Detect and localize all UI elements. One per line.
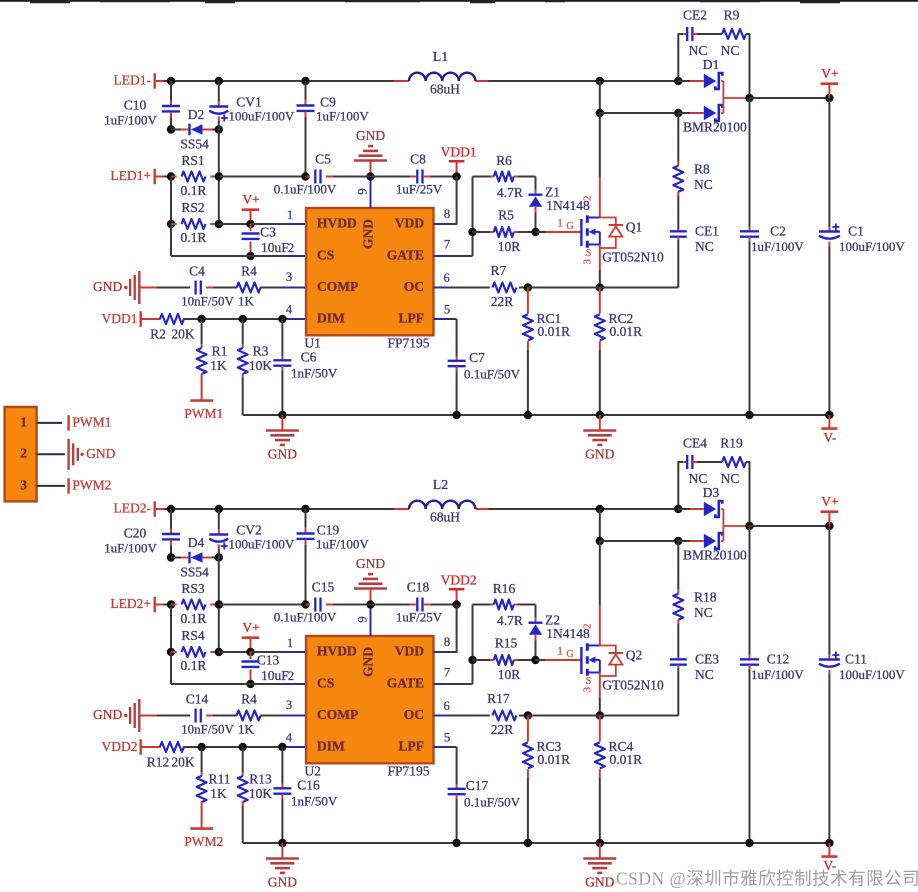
port LED2+ (153, 597, 155, 613)
port PWM1 at connector (67, 415, 69, 431)
wire OC row to CE1 column (524, 711, 532, 719)
capacitor C18 1uF/25V (371, 604, 410, 606)
wire CV column down to RS rows (218, 130, 220, 225)
svg-text:R17: R17 (487, 691, 510, 706)
svg-text:R3: R3 (253, 344, 269, 359)
svg-text:PWM1: PWM1 (72, 414, 111, 429)
wire OC row to CE1 column (524, 283, 532, 291)
svg-text:C3: C3 (260, 225, 276, 240)
svg-text:S: S (586, 248, 592, 259)
svg-text:C17: C17 (466, 778, 489, 793)
wire pin 8 VDD (456, 605, 458, 651)
node HVDD row (246, 220, 254, 228)
svg-text:SS54: SS54 (180, 564, 209, 579)
svg-text:HVDD: HVDD (317, 216, 357, 231)
svg-text:HVDD: HVDD (317, 644, 357, 659)
capacitor CE4 NC and resistor R19 NC bracket (678, 462, 683, 509)
svg-text:1uF/100V: 1uF/100V (316, 108, 369, 123)
port GND at COMP row (138, 271, 140, 304)
resistor R4 1K (237, 711, 261, 721)
resistor R12 20K (141, 746, 161, 748)
svg-text:2: 2 (582, 196, 594, 202)
svg-text:U2: U2 (304, 763, 321, 778)
node HVDD row (246, 648, 254, 656)
svg-text:LED1-: LED1- (114, 73, 152, 88)
resistor R18 NC (677, 541, 679, 590)
port LED2- (153, 501, 155, 517)
capacitor C6 1nF/50V (281, 319, 283, 356)
svg-text:GND: GND (356, 556, 385, 571)
power ground above IC (370, 161, 372, 177)
capacitor CE1 NC (677, 229, 679, 231)
port PWM2 (190, 827, 213, 830)
wire top rail net LED2- (155, 508, 164, 510)
wire CV column down to RS rows (218, 558, 220, 653)
svg-text:RS2: RS2 (181, 200, 204, 215)
svg-text:NC: NC (695, 239, 714, 254)
svg-text:2: 2 (288, 241, 294, 255)
wire DIM row (202, 318, 285, 320)
svg-text:BMR20100: BMR20100 (683, 547, 747, 562)
svg-text:100uF/100V: 100uF/100V (229, 108, 295, 123)
wire bottom rail (243, 842, 830, 844)
resistor RS4 0.1R (170, 605, 172, 653)
svg-text:GND: GND (585, 875, 614, 890)
wire rail down to lower diode row (596, 77, 604, 85)
svg-text:GND: GND (268, 875, 297, 890)
capacitor CV2 polarized (218, 509, 220, 529)
svg-text:3: 3 (286, 270, 292, 284)
resistor RC3 0.01R (527, 716, 529, 742)
svg-text:8: 8 (444, 635, 450, 649)
svg-text:9: 9 (355, 616, 369, 622)
svg-text:C2: C2 (770, 224, 786, 239)
svg-text:R11: R11 (208, 772, 230, 787)
resistor R4 1K (237, 283, 261, 293)
svg-text:10uF: 10uF (261, 668, 289, 683)
capacitor CV1 polarized (218, 81, 220, 101)
svg-text:LED2-: LED2- (114, 501, 152, 516)
svg-text:GND: GND (93, 707, 122, 722)
svg-text:1nF/50V: 1nF/50V (291, 794, 338, 809)
power port V+ right (828, 84, 830, 98)
svg-text:S: S (586, 676, 592, 687)
wire pin1 HVDD (251, 223, 281, 225)
svg-text:C14: C14 (186, 691, 209, 706)
resistor R7 22R (434, 287, 448, 289)
svg-text:CE2: CE2 (683, 8, 707, 23)
svg-text:2: 2 (20, 446, 27, 461)
capacitor C1 100uF/100V polarized (828, 98, 830, 227)
node CS row (246, 252, 254, 260)
svg-text:C15: C15 (312, 579, 335, 594)
svg-text:5: 5 (444, 302, 450, 316)
svg-text:COMP: COMP (317, 279, 358, 294)
resistor R13 10K (242, 747, 244, 772)
svg-text:1: 1 (287, 208, 293, 222)
svg-text:R8: R8 (694, 162, 710, 177)
capacitor C14 10nF/50V (139, 715, 156, 717)
svg-text:9: 9 (355, 188, 369, 194)
power ground below source column (599, 843, 601, 859)
svg-text:10R: 10R (498, 239, 521, 254)
wire RS2 row to V+ node (219, 223, 251, 225)
svg-text:PWM1: PWM1 (184, 406, 223, 421)
svg-text:10K: 10K (249, 358, 273, 373)
svg-text:1uF/100V: 1uF/100V (751, 239, 804, 254)
svg-text:C16: C16 (297, 777, 320, 792)
svg-text:RS4: RS4 (181, 628, 205, 643)
power port VDD2 above pin8 (449, 588, 465, 591)
power port V- right (828, 415, 830, 429)
svg-text:20K: 20K (171, 755, 195, 770)
resistor R6 4.7R (473, 176, 491, 178)
svg-text:U1: U1 (304, 335, 321, 350)
svg-text:4: 4 (286, 302, 293, 316)
svg-text:D2: D2 (188, 107, 205, 122)
svg-text:D1: D1 (703, 57, 720, 72)
connector J1 (5, 407, 37, 502)
wire connector pin1 (37, 422, 62, 424)
svg-text:C18: C18 (407, 579, 430, 594)
svg-text:C8: C8 (410, 151, 426, 166)
svg-text:10uF: 10uF (261, 240, 289, 255)
svg-text:CV2: CV2 (236, 523, 262, 538)
svg-text:C11: C11 (845, 652, 867, 667)
svg-text:R4: R4 (241, 263, 257, 278)
capacitor C17 0.1uF/50V (456, 784, 458, 789)
port LED1- (153, 73, 155, 89)
capacitor CE2 NC and resistor R9 NC bracket (678, 34, 683, 81)
svg-text:V+: V+ (821, 494, 838, 509)
top cropped text artifact (0, 0, 918, 2)
capacitor C12 1uF/100V (749, 526, 751, 655)
svg-text:1uF/25V: 1uF/25V (396, 181, 443, 196)
svg-text:OC: OC (404, 707, 424, 722)
svg-text:NC: NC (689, 471, 708, 486)
capacitor C8 1uF/25V (371, 176, 410, 178)
svg-text:1K: 1K (210, 358, 227, 373)
svg-text:6: 6 (443, 699, 449, 713)
svg-text:1K: 1K (210, 786, 227, 801)
svg-text:CE1: CE1 (695, 224, 719, 239)
svg-text:R5: R5 (498, 207, 514, 222)
pin 9 GND stem (370, 605, 372, 637)
wire pin 7 GATE to R6/R5 (434, 255, 448, 257)
svg-text:R1: R1 (212, 344, 228, 359)
svg-text:6: 6 (443, 271, 449, 285)
power ground below C6 (281, 415, 283, 431)
port LED1+ (153, 169, 155, 185)
svg-text:68uH: 68uH (430, 82, 460, 97)
svg-text:7: 7 (444, 666, 450, 680)
resistor RC1 0.01R (527, 288, 529, 314)
svg-text:V+: V+ (242, 192, 259, 207)
resistor RS2 0.1R (170, 177, 172, 225)
capacitor C15 0.1uF/100V (306, 604, 310, 606)
svg-text:R16: R16 (493, 581, 516, 596)
power port V+ above C3 (250, 210, 252, 224)
svg-text:VDD2: VDD2 (441, 572, 477, 587)
svg-text:R4: R4 (241, 691, 257, 706)
svg-text:PWM2: PWM2 (72, 477, 111, 492)
transistor Q2 GT052N10 NMOS (536, 659, 546, 661)
port PWM2 at connector (67, 478, 69, 494)
svg-text:G: G (566, 221, 573, 232)
svg-text:10nF/50V: 10nF/50V (181, 293, 234, 308)
resistor R15 10R (468, 656, 476, 664)
resistor RC4 0.01R (599, 716, 601, 742)
capacitor C13 10uF (250, 652, 252, 659)
svg-text:R13: R13 (249, 772, 272, 787)
svg-text:V-: V- (823, 430, 837, 445)
svg-text:V+: V+ (821, 66, 838, 81)
svg-text:0.1R: 0.1R (181, 658, 207, 673)
svg-text:0.1uF/50V: 0.1uF/50V (464, 367, 521, 382)
svg-text:0.1R: 0.1R (181, 611, 207, 626)
svg-text:NC: NC (695, 667, 714, 682)
resistor R1 1K (201, 319, 203, 344)
wire V+ row (750, 97, 830, 99)
svg-text:L2: L2 (433, 478, 449, 493)
wire rail to diode bracket (489, 508, 679, 510)
svg-text:0.01R: 0.01R (610, 324, 643, 339)
port VDD1 at DIM row (139, 311, 141, 327)
node rail junctions (167, 505, 175, 513)
svg-text:L1: L1 (433, 50, 449, 65)
svg-text:10nF/50V: 10nF/50V (181, 721, 234, 736)
svg-text:BMR20100: BMR20100 (683, 119, 747, 134)
power ground below C6 (281, 843, 283, 859)
svg-text:C19: C19 (317, 523, 340, 538)
svg-text:R9: R9 (724, 8, 740, 23)
svg-text:R18: R18 (694, 590, 717, 605)
power port V- right (828, 843, 830, 857)
diode D4 SS54 (167, 553, 175, 561)
wire switch node row to lower diode (600, 540, 679, 542)
svg-text:1uF/100V: 1uF/100V (316, 536, 369, 551)
svg-text:NC: NC (689, 43, 708, 58)
svg-text:C20: C20 (124, 526, 147, 541)
wire connector pin3 (37, 485, 65, 487)
svg-text:GND: GND (93, 279, 122, 294)
svg-text:2: 2 (288, 669, 294, 683)
wire CS row (170, 652, 172, 684)
wire pin 5 LPF (434, 746, 448, 748)
port VDD2 at DIM row (139, 739, 141, 755)
body diode of Q2 (600, 646, 616, 677)
svg-text:Q1: Q1 (626, 219, 643, 234)
svg-text:VDD2: VDD2 (102, 739, 138, 754)
wire drain to switch node (599, 113, 601, 177)
svg-text:4: 4 (286, 730, 293, 744)
svg-text:VDD: VDD (395, 216, 424, 231)
svg-text:DIM: DIM (317, 311, 345, 326)
wire pin1 HVDD (251, 651, 281, 653)
svg-text:V+: V+ (242, 620, 259, 635)
svg-text:DIM: DIM (317, 739, 345, 754)
svg-text:100uF/100V: 100uF/100V (839, 667, 905, 682)
svg-text:GATE: GATE (387, 248, 424, 263)
svg-text:GND: GND (356, 128, 385, 143)
svg-text:1K: 1K (238, 721, 255, 736)
svg-text:3: 3 (20, 477, 27, 492)
svg-text:1: 1 (287, 636, 293, 650)
svg-text:R15: R15 (495, 635, 518, 650)
svg-text:VDD1: VDD1 (441, 144, 477, 159)
svg-text:1K: 1K (238, 293, 255, 308)
resistor R2 20K (141, 318, 161, 320)
capacitor C10 (170, 81, 172, 101)
resistor R17 22R (434, 715, 448, 717)
wire pin 7 GATE to R6/R5 (434, 683, 448, 685)
svg-text:C7: C7 (469, 350, 485, 365)
svg-text:0.01R: 0.01R (610, 752, 643, 767)
wire pin 5 LPF (434, 318, 448, 320)
svg-text:0.01R: 0.01R (538, 752, 571, 767)
IC U2 FP7195 (306, 636, 434, 763)
svg-text:1uF/25V: 1uF/25V (396, 609, 443, 624)
resistor R8 NC (677, 113, 679, 162)
resistor RC2 0.01R (599, 288, 601, 314)
wire source down to OC row (599, 673, 601, 699)
pin 9 GND stem (370, 177, 372, 209)
wire RS2 row to V+ node (219, 651, 251, 653)
svg-text:CV1: CV1 (236, 95, 262, 110)
wire source down to OC row (599, 245, 601, 271)
capacitor C11 100uF/100V polarized (828, 526, 830, 655)
diode Z2 1N4148 (535, 605, 537, 618)
port GND at COMP row (138, 699, 140, 732)
wire drain to switch node (599, 541, 601, 605)
svg-text:20K: 20K (171, 327, 195, 342)
node rail junctions (167, 77, 175, 85)
svg-text:LPF: LPF (399, 311, 425, 326)
capacitor C9 (305, 81, 307, 100)
capacitor C4 10nF/50V (139, 287, 156, 289)
node gate (531, 656, 539, 664)
port PWM1 (190, 399, 213, 402)
resistor R16 4.7R (473, 604, 491, 606)
svg-text:R12: R12 (147, 755, 170, 770)
capacitor C3 10uF (250, 224, 252, 231)
node gate (531, 228, 539, 236)
svg-text:D4: D4 (188, 535, 205, 550)
wire rail down to lower diode row (596, 505, 604, 513)
svg-text:C6: C6 (301, 349, 317, 364)
svg-text:LPF: LPF (399, 739, 425, 754)
wire rail to diode bracket (489, 80, 679, 82)
svg-text:0.1R: 0.1R (181, 183, 207, 198)
svg-text:Q2: Q2 (626, 647, 643, 662)
svg-text:GND: GND (268, 447, 297, 462)
wire connector pin2 (37, 453, 65, 455)
wire cathodes to V+ node (721, 509, 750, 541)
svg-text:R19: R19 (720, 436, 743, 451)
transistor Q1 GT052N10 NMOS (536, 231, 546, 233)
svg-text:CE4: CE4 (683, 436, 707, 451)
svg-text:FP7195: FP7195 (387, 335, 429, 350)
capacitor C16 1nF/50V (281, 747, 283, 784)
inductor L2 (394, 508, 409, 510)
svg-text:GT052N10: GT052N10 (602, 249, 664, 264)
wire CS row (170, 224, 172, 256)
wire pin 8 VDD (456, 177, 458, 223)
capacitor C7 0.1uF/50V (456, 356, 458, 361)
svg-text:RS1: RS1 (181, 153, 204, 168)
wire switch node row to lower diode (600, 112, 679, 114)
svg-text:22R: 22R (491, 722, 514, 737)
svg-text:0.1uF/100V: 0.1uF/100V (274, 609, 337, 624)
svg-text:1uF/100V: 1uF/100V (751, 667, 804, 682)
svg-text:1nF/50V: 1nF/50V (291, 366, 338, 381)
svg-text:VDD: VDD (395, 644, 424, 659)
svg-text:CS: CS (317, 676, 334, 691)
svg-text:GT052N10: GT052N10 (602, 677, 664, 692)
diode D2 SS54 (167, 125, 175, 133)
svg-text:C1: C1 (848, 224, 864, 239)
power ground above IC (370, 589, 372, 605)
svg-text:COMP: COMP (317, 707, 358, 722)
capacitor CE3 NC (677, 657, 679, 659)
diode Z1 1N4148 (535, 177, 537, 190)
svg-text:1: 1 (557, 643, 563, 657)
svg-text:R7: R7 (491, 263, 507, 278)
svg-text:NC: NC (694, 605, 713, 620)
svg-text:3: 3 (286, 698, 292, 712)
svg-text:10K: 10K (249, 786, 273, 801)
svg-text:GND: GND (86, 446, 115, 461)
wire top rail net LED1- (155, 80, 164, 82)
svg-text:10R: 10R (498, 667, 521, 682)
svg-text:LED2+: LED2+ (110, 596, 151, 611)
svg-text:2: 2 (582, 624, 594, 630)
wire cathodes to V+ node (721, 81, 750, 113)
wire LED+ row to C5 junction (219, 176, 306, 178)
svg-text:1uF/100V: 1uF/100V (104, 540, 157, 555)
svg-text:0.01R: 0.01R (538, 324, 571, 339)
wire LED+ row to C5 junction (219, 604, 306, 606)
svg-text:D3: D3 (703, 485, 720, 500)
svg-text:C4: C4 (189, 263, 205, 278)
capacitor C20 (170, 509, 172, 529)
svg-text:R2: R2 (150, 327, 166, 342)
inductor L1 (394, 80, 409, 82)
svg-text:SS54: SS54 (180, 136, 209, 151)
resistor R11 1K (201, 747, 203, 772)
power port V+ above C3 (250, 638, 252, 652)
svg-text:1uF/100V: 1uF/100V (104, 112, 157, 127)
svg-text:3: 3 (582, 258, 594, 264)
svg-text:3: 3 (582, 686, 594, 692)
svg-text:LED1+: LED1+ (110, 168, 151, 183)
wire V+ row (750, 525, 830, 527)
svg-text:C10: C10 (124, 98, 147, 113)
svg-text:7: 7 (444, 238, 450, 252)
svg-text:G: G (566, 649, 573, 660)
svg-text:C13: C13 (257, 653, 280, 668)
svg-text:PWM2: PWM2 (184, 834, 223, 849)
svg-text:NC: NC (721, 471, 740, 486)
svg-text:GATE: GATE (387, 676, 424, 691)
svg-text:8: 8 (444, 207, 450, 221)
svg-text:CS: CS (317, 248, 334, 263)
svg-text:0.1uF/50V: 0.1uF/50V (464, 795, 521, 810)
svg-text:0.1R: 0.1R (181, 230, 207, 245)
svg-text:RS3: RS3 (181, 581, 205, 596)
resistor R3 10K (242, 319, 244, 344)
node CS row (246, 680, 254, 688)
